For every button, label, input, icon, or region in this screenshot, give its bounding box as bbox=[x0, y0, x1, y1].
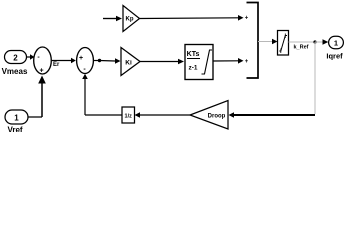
svg-text:1/z: 1/z bbox=[125, 114, 133, 120]
svg-text:Kp: Kp bbox=[126, 17, 134, 23]
svg-text:1: 1 bbox=[14, 114, 19, 123]
svg-text:z-1: z-1 bbox=[188, 65, 197, 72]
junction dot after Sum2 bbox=[98, 59, 101, 62]
wire integrator to bracket sum (bottom + input) bbox=[213, 58, 249, 65]
outport 1 Iqref bbox=[326, 36, 343, 60]
svg-text:Vref: Vref bbox=[7, 126, 22, 133]
svg-text:Iqref: Iqref bbox=[326, 52, 343, 61]
unit delay 1/z bbox=[122, 107, 135, 123]
wire into Kp gain bbox=[103, 16, 122, 22]
sum Sum2 bbox=[77, 48, 94, 74]
wire Kp to bracket sum (top + input) bbox=[140, 15, 249, 22]
gain Kp bbox=[123, 6, 140, 32]
svg-text:+: + bbox=[39, 68, 43, 75]
wire bracket to saturation (light) bbox=[258, 39, 278, 44]
svg-text:+: + bbox=[245, 16, 249, 22]
wire Sum2 to Ki gain bbox=[94, 58, 121, 64]
wire Vref to Sum1 bottom bbox=[28, 76, 46, 118]
svg-text:Vmeas: Vmeas bbox=[2, 67, 28, 76]
gain Droop (left-pointing) bbox=[190, 101, 228, 130]
wire saturation to outport (light) with branch junction bbox=[289, 39, 329, 44]
wire Vmeas to Sum1 bbox=[27, 54, 35, 60]
saturation block bbox=[278, 31, 289, 56]
wire unit delay to Sum2 bottom bbox=[82, 74, 122, 115]
wire Ki to integrator bbox=[140, 59, 184, 65]
sum Sum1 bbox=[34, 47, 52, 75]
feedback bottom wire to Droop bbox=[229, 112, 316, 118]
feedback branch wire down (light) bbox=[314, 42, 316, 114]
svg-text:2: 2 bbox=[13, 54, 18, 63]
wire Sum1 to Sum2 bbox=[52, 58, 76, 64]
svg-text:Er: Er bbox=[53, 62, 60, 68]
svg-text:+: + bbox=[245, 59, 249, 65]
inport 2 Vmeas bbox=[2, 51, 28, 77]
svg-text:k_Ref: k_Ref bbox=[294, 45, 309, 51]
wire Droop to unit delay bbox=[135, 112, 191, 118]
discrete-time integrator KTs/(z-1) bbox=[185, 45, 213, 80]
svg-text:+: + bbox=[79, 55, 83, 62]
svg-text:Droop: Droop bbox=[208, 114, 226, 120]
inport 1 Vref bbox=[5, 110, 28, 135]
sum bracket (add) bbox=[247, 3, 259, 79]
gain Ki bbox=[121, 48, 140, 76]
svg-text:1: 1 bbox=[334, 38, 338, 47]
svg-text:KTs: KTs bbox=[187, 51, 200, 58]
svg-text:Ki: Ki bbox=[125, 60, 132, 67]
